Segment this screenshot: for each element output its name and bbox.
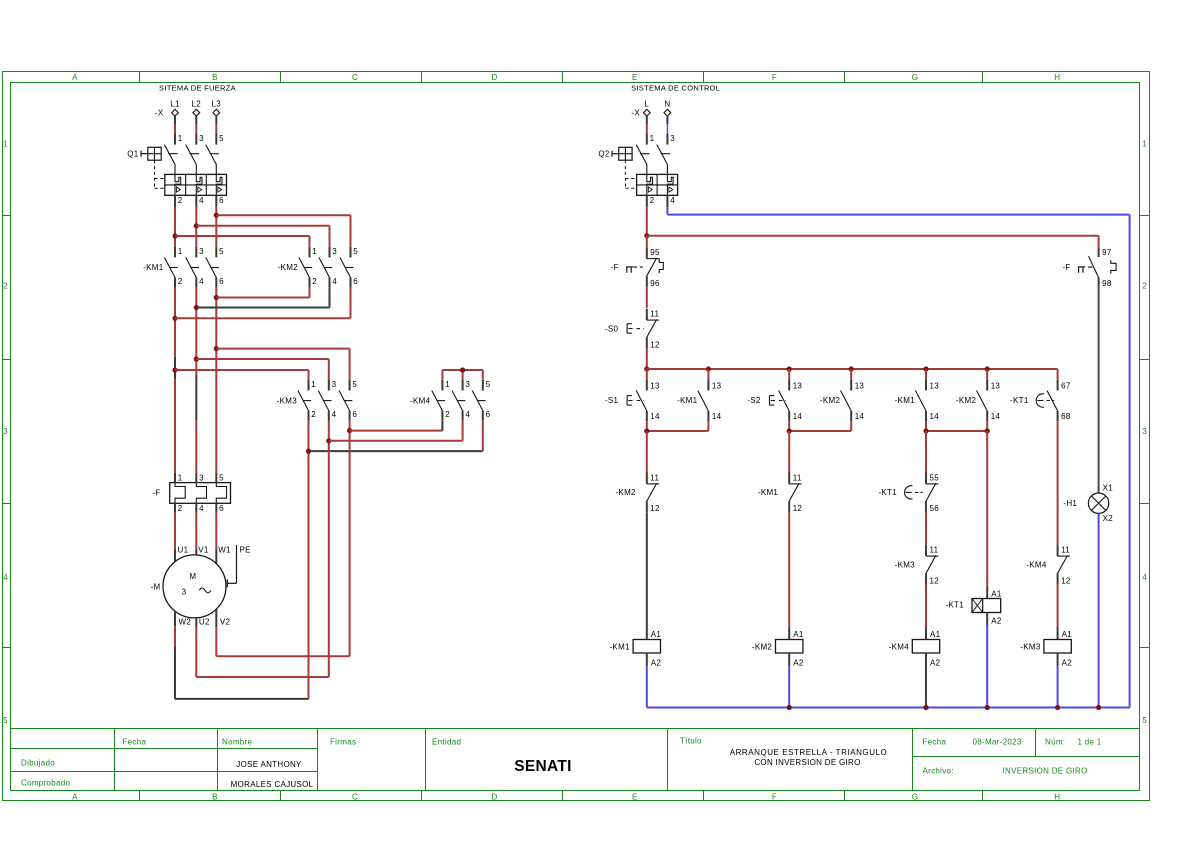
svg-text:14: 14 [793, 412, 803, 421]
svg-text:96: 96 [650, 279, 660, 288]
svg-text:5: 5 [219, 247, 224, 256]
node tap L2 to KM3 pole3 [194, 356, 199, 361]
contactor KM3 power contacts [298, 380, 352, 421]
wire tap to KM2 pin 3 [196, 226, 329, 247]
S0 label [605, 324, 619, 333]
svg-text:5: 5 [219, 473, 224, 482]
svg-text:08-Mar-2023: 08-Mar-2023 [973, 738, 1022, 747]
svg-text:4: 4 [199, 504, 204, 513]
wire KM4 coil to neutral rail [925, 666, 927, 708]
svg-text:67: 67 [1061, 382, 1071, 391]
svg-text:-KT1: -KT1 [878, 488, 897, 497]
contactor coil KM1 [609, 628, 661, 668]
wire KM2 aux junction to KT1 coil [986, 431, 988, 586]
svg-text:3: 3 [332, 380, 337, 389]
svg-text:-F: -F [611, 263, 619, 272]
KM3 pin labels [311, 380, 357, 419]
contact KM1 NC 11-12 [789, 473, 801, 513]
KM2 NC label [615, 488, 636, 497]
KM2 aux label [820, 396, 841, 405]
node KM3 pin2 KM4 pin6 junction [306, 449, 311, 454]
svg-text:V1: V1 [198, 545, 209, 554]
circuit breaker Q2 [612, 133, 670, 188]
circuit breaker Q1 [141, 133, 219, 188]
motor PE terminal [227, 545, 250, 587]
timer contact KT1 NO delayed 67-68 [1036, 380, 1057, 422]
svg-text:D: D [491, 792, 497, 801]
svg-text:F: F [772, 792, 777, 801]
svg-text:4: 4 [670, 196, 675, 205]
svg-text:5: 5 [353, 247, 358, 256]
node KM2 pin4 junction [194, 305, 199, 310]
contactor KM4 power contacts [432, 380, 486, 421]
wire S0 to bus 2 [646, 348, 648, 369]
border frame inner [11, 83, 1140, 791]
motor terminal labels W2 U2 V2 [179, 617, 231, 626]
KM2 NC pin labels [650, 473, 660, 513]
svg-text:A2: A2 [991, 616, 1002, 625]
contactor coil KM2 [752, 628, 804, 668]
title block grid [11, 729, 1140, 791]
svg-text:B: B [212, 792, 218, 801]
svg-text:55: 55 [930, 473, 940, 482]
row numbers right 1-5 [1142, 140, 1147, 726]
svg-text:Archivo:: Archivo: [923, 767, 954, 776]
svg-text:3: 3 [199, 473, 204, 482]
wire tap to KM3 pin 3 [196, 359, 328, 380]
wire neutral N from Q2 [667, 195, 1129, 707]
wire KT1 contact to KM4 NC [1057, 421, 1059, 544]
KM3 NC label [895, 560, 916, 569]
F pin labels 1 3 5 [178, 473, 224, 482]
wire motor W2 to star-delta riser [175, 611, 309, 699]
wire KM2 pin 6 to L1 [175, 288, 351, 319]
svg-text:12: 12 [1061, 576, 1071, 585]
wire motor V2 to star-delta riser [216, 609, 349, 656]
svg-text:13: 13 [930, 382, 940, 391]
svg-text:-KM1: -KM1 [677, 396, 698, 405]
KM2 aux pin labels [855, 382, 865, 422]
wire KM3 pole1 down to W2 riser [308, 421, 310, 699]
svg-text:Firmas: Firmas [330, 737, 356, 746]
svg-text:6: 6 [219, 196, 224, 205]
svg-text:4: 4 [199, 277, 204, 286]
KM4 pin labels [445, 380, 490, 419]
svg-text:Fecha: Fecha [123, 737, 147, 746]
wire L1 terminal to Q1 [174, 116, 176, 133]
svg-text:6: 6 [353, 277, 358, 286]
svg-text:2: 2 [650, 196, 655, 205]
wire KT1 coil to neutral rail [986, 626, 988, 708]
svg-text:-KM1: -KM1 [143, 263, 164, 272]
wire tap to KM2 pin 1 [175, 236, 310, 247]
svg-text:6: 6 [219, 504, 224, 513]
title block name MORALES CAJUSOL [231, 780, 314, 789]
svg-text:A1: A1 [930, 630, 941, 639]
svg-text:-KM2: -KM2 [278, 263, 299, 272]
svg-text:1: 1 [1142, 140, 1147, 149]
contact KM4 NC 11-12 [1058, 545, 1070, 585]
node tap L3 to KM2 pole5 [214, 213, 219, 218]
wire KM2 pin 2 to L3 [216, 288, 309, 298]
svg-text:1 de 1: 1 de 1 [1078, 738, 1102, 747]
svg-text:12: 12 [930, 576, 940, 585]
svg-text:Fecha: Fecha [923, 738, 947, 747]
wire KM4 pin 2 to KM3 pin 6 [350, 421, 443, 431]
node rail lamp [1096, 705, 1101, 710]
wire Q1 pole3 output [215, 195, 217, 247]
contact KM1 aux NO 13-14 [698, 380, 709, 422]
KM1 label [143, 263, 164, 272]
svg-text:L2: L2 [192, 100, 202, 109]
wire KM3 NC to KM4 coil [925, 584, 927, 627]
KM2 aux2 pin labels [991, 382, 1001, 422]
F pin labels 2 4 6 [178, 504, 224, 513]
KM1 NC pin labels [793, 473, 803, 513]
row numbers left 1-5 [3, 140, 8, 726]
svg-text:4: 4 [332, 277, 337, 286]
title block label Nombre [222, 737, 253, 746]
node KM2 pin2 junction [214, 295, 219, 300]
svg-text:Comprobado: Comprobado [21, 778, 71, 787]
S1 pin labels 13 14 [650, 382, 660, 422]
title block label Archivo [923, 767, 1088, 776]
svg-text:3: 3 [3, 427, 8, 436]
svg-text:1: 1 [178, 473, 183, 482]
svg-text:-KM4: -KM4 [889, 642, 910, 651]
svg-text:-KM3: -KM3 [1020, 642, 1041, 651]
signal lamp H1 [1088, 493, 1108, 513]
svg-text:98: 98 [1102, 279, 1112, 288]
svg-text:11: 11 [930, 546, 939, 555]
H1 label [1063, 499, 1077, 508]
svg-text:F: F [772, 73, 777, 82]
wire Q1 pole2 output [195, 195, 197, 247]
wire KM4 star bridge [442, 370, 482, 380]
svg-text:E: E [632, 73, 638, 82]
Q2 trip block [637, 164, 678, 195]
KM3 label [277, 396, 298, 405]
node bus2 KM2 aux tap [849, 366, 854, 371]
KT1 NC label [878, 488, 897, 497]
KM2 pin labels [312, 247, 358, 286]
S2 pin labels 13 14 [793, 382, 803, 422]
svg-text:14: 14 [712, 412, 722, 421]
wire S2 KM2 junction [789, 421, 851, 431]
svg-text:CON INVERSION DE GIRO: CON INVERSION DE GIRO [754, 758, 860, 767]
svg-text:Nombre: Nombre [222, 737, 253, 746]
title block label Fecha [123, 737, 147, 746]
wire motor U2 to star-delta riser [196, 618, 328, 677]
svg-text:A2: A2 [1062, 658, 1073, 667]
H1 pin labels X1 X2 [1103, 483, 1114, 523]
node bus2 KM1 aux tap [706, 366, 711, 371]
svg-text:13: 13 [991, 382, 1001, 391]
row reference ticks right band [1140, 216, 1150, 648]
row reference ticks left band [3, 216, 11, 648]
KT1 NC pin labels 55 56 [930, 473, 940, 513]
KM1 aux pin labels [712, 382, 722, 422]
wire KM1 aux junction to KT1 NC [925, 431, 927, 473]
svg-text:6: 6 [486, 410, 491, 419]
wire KM3 coil to neutral rail [1057, 666, 1059, 708]
node KM4 star point [460, 367, 465, 372]
svg-text:-KM3: -KM3 [277, 396, 298, 405]
S2 label [747, 396, 761, 405]
KM4 NC label [1026, 560, 1047, 569]
terminal L3 [212, 100, 222, 117]
contact KM3 NC 11-12 [926, 545, 938, 585]
pushbutton S2 NO 13-14 [770, 380, 790, 422]
node KM3 pin4 KM4 pin4 junction [326, 438, 331, 443]
node KM1 aux junction [923, 428, 928, 433]
KM1 NC label [758, 488, 779, 497]
thermal contact F 97-98 [1078, 247, 1116, 287]
svg-text:13: 13 [650, 382, 660, 391]
contact KM2 aux NO 13-14 [841, 380, 852, 422]
svg-text:3: 3 [332, 247, 337, 256]
svg-text:1: 1 [3, 140, 8, 149]
node bus2 S2 tap [787, 366, 792, 371]
svg-text:5: 5 [352, 380, 357, 389]
svg-text:11: 11 [650, 310, 659, 319]
svg-text:95: 95 [650, 248, 660, 257]
Q2 label [598, 150, 610, 159]
F 95-96 label [611, 263, 619, 272]
wire bus2 stubs to contacts [647, 369, 987, 380]
wire KM1 pole1 down [174, 288, 176, 473]
svg-text:Título: Título [680, 737, 702, 746]
Q2 pin labels 1 3 [650, 134, 676, 143]
svg-text:3: 3 [1142, 427, 1147, 436]
svg-text:2: 2 [3, 282, 8, 291]
svg-text:-KM1: -KM1 [609, 642, 630, 651]
wire KM3 pole2 down to U2 riser [328, 421, 330, 677]
wire L2 terminal to Q1 [195, 116, 197, 133]
svg-text:H: H [1054, 792, 1060, 801]
svg-text:4: 4 [199, 196, 204, 205]
title block label Entidad [432, 737, 461, 746]
svg-text:-KM2: -KM2 [956, 396, 977, 405]
svg-text:L1: L1 [170, 100, 180, 109]
column letters bottom A-H [72, 792, 1060, 801]
node rail KM3 coil [1055, 705, 1060, 710]
title block label Num [1045, 738, 1102, 747]
svg-text:97: 97 [1102, 248, 1112, 257]
svg-text:5: 5 [486, 380, 491, 389]
KM2 label [278, 263, 299, 272]
svg-text:A1: A1 [651, 630, 662, 639]
title block entity SENATI [514, 758, 572, 775]
column reference ticks bottom band [140, 791, 983, 801]
wire KM4 pin 6 to KM3 pin 2 [309, 421, 483, 451]
svg-text:-H1: -H1 [1063, 499, 1077, 508]
S1 label [605, 396, 619, 405]
svg-text:3: 3 [182, 588, 187, 597]
svg-text:A: A [72, 73, 78, 82]
svg-text:INVERSION DE GIRO: INVERSION DE GIRO [1003, 767, 1088, 776]
KM3 NC pin labels [930, 546, 940, 586]
svg-text:4: 4 [3, 573, 8, 582]
node tap L1 to KM2 pole1 [172, 233, 177, 238]
svg-text:N: N [664, 100, 670, 109]
svg-text:Entidad: Entidad [432, 737, 461, 746]
KM1 pin labels [178, 247, 224, 286]
svg-text:Q2: Q2 [598, 150, 610, 159]
wire feed node to F95 [646, 236, 648, 248]
contact KM2 aux2 NO 13-14 [977, 380, 988, 422]
wire lamp to neutral rail [1098, 513, 1100, 707]
svg-text:X2: X2 [1103, 514, 1114, 523]
svg-text:-KM3: -KM3 [895, 560, 916, 569]
title block name JOSE ANTHONY [236, 760, 302, 769]
svg-text:SENATI: SENATI [514, 758, 572, 775]
motor terminal labels U1 V1 W1 [178, 545, 232, 554]
title block drawing title line 2 [754, 758, 860, 767]
svg-text:1: 1 [445, 380, 450, 389]
svg-text:68: 68 [1061, 412, 1071, 421]
terminal -X L control [631, 100, 650, 118]
thermal overload relay F power block [170, 473, 231, 513]
svg-text:12: 12 [650, 504, 660, 513]
svg-text:2: 2 [445, 410, 450, 419]
svg-text:G: G [912, 792, 919, 801]
svg-text:-KM2: -KM2 [752, 642, 773, 651]
KT1 pin labels 67 68 [1061, 382, 1071, 422]
wire KM1 pole2 down [195, 288, 197, 473]
Q1 pin labels 1 3 5 [178, 134, 224, 143]
F 97-98 label [1062, 263, 1070, 272]
svg-text:11: 11 [793, 473, 802, 482]
KM4 label [410, 396, 431, 405]
svg-text:14: 14 [855, 412, 865, 421]
svg-text:4: 4 [332, 410, 337, 419]
svg-text:-M: -M [151, 582, 161, 591]
svg-text:2: 2 [178, 277, 183, 286]
wire tap to KM2 pin 5 [216, 215, 350, 247]
svg-text:5: 5 [3, 716, 8, 725]
svg-text:U2: U2 [199, 617, 210, 626]
svg-text:-KM2: -KM2 [820, 396, 841, 405]
F pin labels 97 98 [1102, 248, 1112, 288]
wire F96 to S0 [646, 287, 648, 308]
svg-text:1: 1 [312, 247, 317, 256]
svg-text:H: H [1054, 73, 1060, 82]
Q2 pin labels 2 4 [650, 196, 676, 205]
svg-text:12: 12 [793, 504, 803, 513]
node rail KT1 coil [985, 705, 990, 710]
svg-text:-F: -F [1062, 263, 1070, 272]
svg-text:B: B [212, 73, 218, 82]
contactor KM2 power contacts [299, 247, 353, 288]
wire S1 KM1 junction [647, 421, 709, 431]
svg-text:L: L [644, 100, 649, 109]
svg-text:G: G [912, 73, 919, 82]
S0 pin labels 11 12 [650, 310, 660, 350]
svg-text:6: 6 [352, 410, 357, 419]
pushbutton S1 NO 13-14 [627, 380, 647, 422]
KM1 aux label [677, 396, 698, 405]
section title SISTEMA DE CONTROL [631, 83, 720, 92]
svg-text:-S1: -S1 [605, 396, 619, 405]
svg-text:4: 4 [1142, 573, 1147, 582]
node control feed [644, 233, 649, 238]
svg-text:A1: A1 [793, 630, 804, 639]
node rail KM4 coil [923, 705, 928, 710]
node KM2 pin6 junction [172, 316, 177, 321]
svg-text:4: 4 [465, 410, 470, 419]
svg-text:A1: A1 [1062, 630, 1073, 639]
wire F to motor W1 [215, 513, 217, 564]
svg-text:JOSE ANTHONY: JOSE ANTHONY [236, 760, 302, 769]
node bus2 KM2 aux2 tap [985, 366, 990, 371]
column reference ticks top band [140, 72, 983, 83]
svg-text:12: 12 [650, 340, 660, 349]
svg-text:A2: A2 [930, 658, 941, 667]
KT1 contact label [1010, 396, 1029, 405]
title block drawing title line 1 [730, 748, 888, 757]
svg-text:-KT1: -KT1 [1010, 396, 1029, 405]
F pin labels 95 96 [650, 248, 660, 288]
svg-text:-F: -F [152, 488, 160, 497]
svg-text:Núm:: Núm: [1045, 738, 1065, 747]
wire KM1 KM2 aux junction [926, 421, 987, 431]
svg-text:11: 11 [650, 473, 659, 482]
wire KM1 pole3 down [215, 288, 217, 473]
svg-text:Dibujado: Dibujado [21, 758, 55, 767]
svg-text:-KM2: -KM2 [615, 488, 636, 497]
node tap L3 to KM3 pole5 [214, 346, 219, 351]
svg-text:-X: -X [155, 109, 164, 118]
svg-text:-KT1: -KT1 [945, 601, 964, 610]
svg-text:D: D [491, 73, 497, 82]
svg-text:MORALES CAJUSOL: MORALES CAJUSOL [231, 780, 314, 789]
wire KM4 NC to KM3 coil [1057, 584, 1059, 627]
wire Q1 pole1 output [174, 195, 176, 247]
contactor coil KM4 [889, 628, 941, 668]
svg-text:U1: U1 [178, 545, 189, 554]
svg-text:2: 2 [311, 410, 316, 419]
svg-text:-X: -X [631, 109, 640, 118]
svg-text:13: 13 [855, 382, 865, 391]
svg-text:-S2: -S2 [747, 396, 761, 405]
wire KM3 pole3 down to V2 riser [349, 421, 351, 657]
svg-text:1: 1 [178, 247, 183, 256]
wire KM4 pin 4 to KM3 pin 4 [329, 421, 463, 441]
motor label -M [151, 582, 161, 591]
wire KM2 coil to neutral rail [788, 666, 790, 708]
title block label Fecha date [923, 738, 1022, 747]
svg-text:14: 14 [650, 412, 660, 421]
wire KM1 NC to KM2 coil [788, 512, 790, 627]
node rail KM2 coil [787, 705, 792, 710]
svg-text:2: 2 [1142, 282, 1147, 291]
contact KM2 NC 11-12 [647, 473, 659, 513]
svg-text:A2: A2 [793, 658, 804, 667]
svg-text:-KM4: -KM4 [1026, 560, 1047, 569]
wire control bus L1 phase [647, 236, 1099, 248]
wire KM1 coil to neutral rail [646, 666, 648, 708]
pushbutton S0 NC 11-12 [627, 309, 659, 349]
svg-text:L3: L3 [212, 100, 222, 109]
svg-text:2: 2 [178, 504, 183, 513]
F power label [152, 488, 160, 497]
wire KT1 NC to KM3 NC [925, 512, 927, 545]
wire N terminal to Q2 [666, 116, 668, 133]
svg-text:2: 2 [312, 277, 317, 286]
svg-text:3: 3 [199, 134, 204, 143]
node KM2 aux junction [985, 428, 990, 433]
